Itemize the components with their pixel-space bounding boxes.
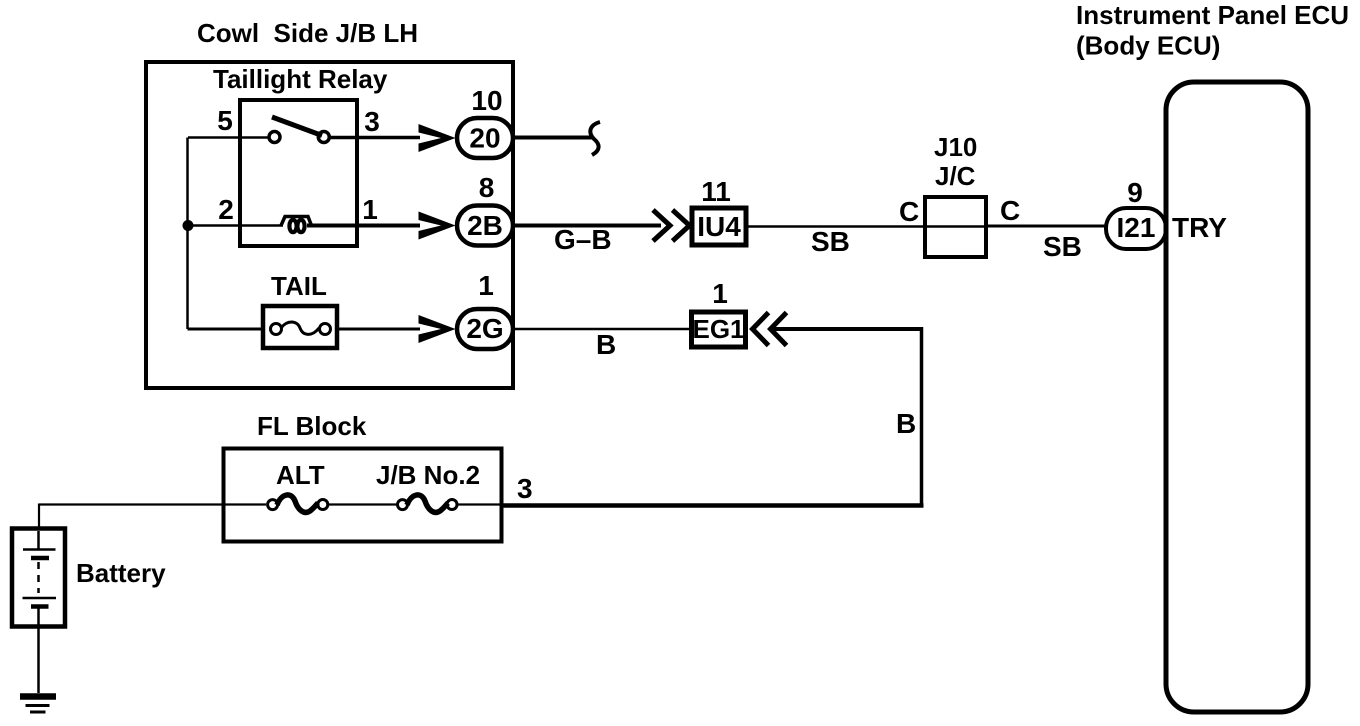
- svg-text:C: C: [1000, 195, 1020, 226]
- svg-text:1: 1: [362, 194, 378, 225]
- svg-text:9: 9: [1127, 177, 1143, 208]
- svg-text:2G: 2G: [466, 313, 503, 344]
- svg-text:5: 5: [217, 105, 233, 136]
- svg-text:8: 8: [479, 172, 495, 203]
- svg-text:2B: 2B: [467, 210, 503, 241]
- svg-text:TRY: TRY: [1172, 212, 1227, 243]
- svg-text:FL Block: FL Block: [257, 411, 367, 441]
- svg-text:EG1: EG1: [692, 314, 744, 344]
- svg-text:3: 3: [364, 106, 380, 137]
- svg-text:2: 2: [218, 194, 234, 225]
- svg-text:SB: SB: [1043, 231, 1082, 262]
- svg-text:B: B: [596, 329, 616, 360]
- svg-text:3: 3: [517, 473, 533, 504]
- svg-text:J10: J10: [934, 132, 977, 162]
- svg-text:B: B: [896, 408, 916, 439]
- svg-text:Cowl Side J/B LH: Cowl Side J/B LH: [197, 18, 418, 48]
- svg-text:20: 20: [469, 123, 500, 154]
- svg-text:Instrument Panel ECU: Instrument Panel ECU: [1076, 0, 1349, 30]
- svg-text:1: 1: [712, 278, 728, 309]
- svg-text:J/B No.2: J/B No.2: [376, 460, 480, 490]
- svg-text:IU4: IU4: [697, 211, 741, 242]
- svg-text:10: 10: [471, 85, 502, 116]
- svg-text:ALT: ALT: [276, 460, 325, 490]
- svg-text:1: 1: [478, 270, 494, 301]
- svg-text:TAIL: TAIL: [271, 271, 327, 301]
- svg-text:11: 11: [701, 176, 731, 207]
- svg-text:(Body ECU): (Body ECU): [1076, 31, 1220, 61]
- svg-text:I21: I21: [1117, 212, 1156, 243]
- svg-text:Taillight Relay: Taillight Relay: [213, 64, 388, 94]
- svg-text:C: C: [899, 196, 919, 227]
- svg-text:J/C: J/C: [935, 161, 976, 191]
- svg-text:G–B: G–B: [554, 224, 612, 255]
- svg-text:Battery: Battery: [76, 558, 166, 588]
- svg-text:SB: SB: [811, 226, 850, 257]
